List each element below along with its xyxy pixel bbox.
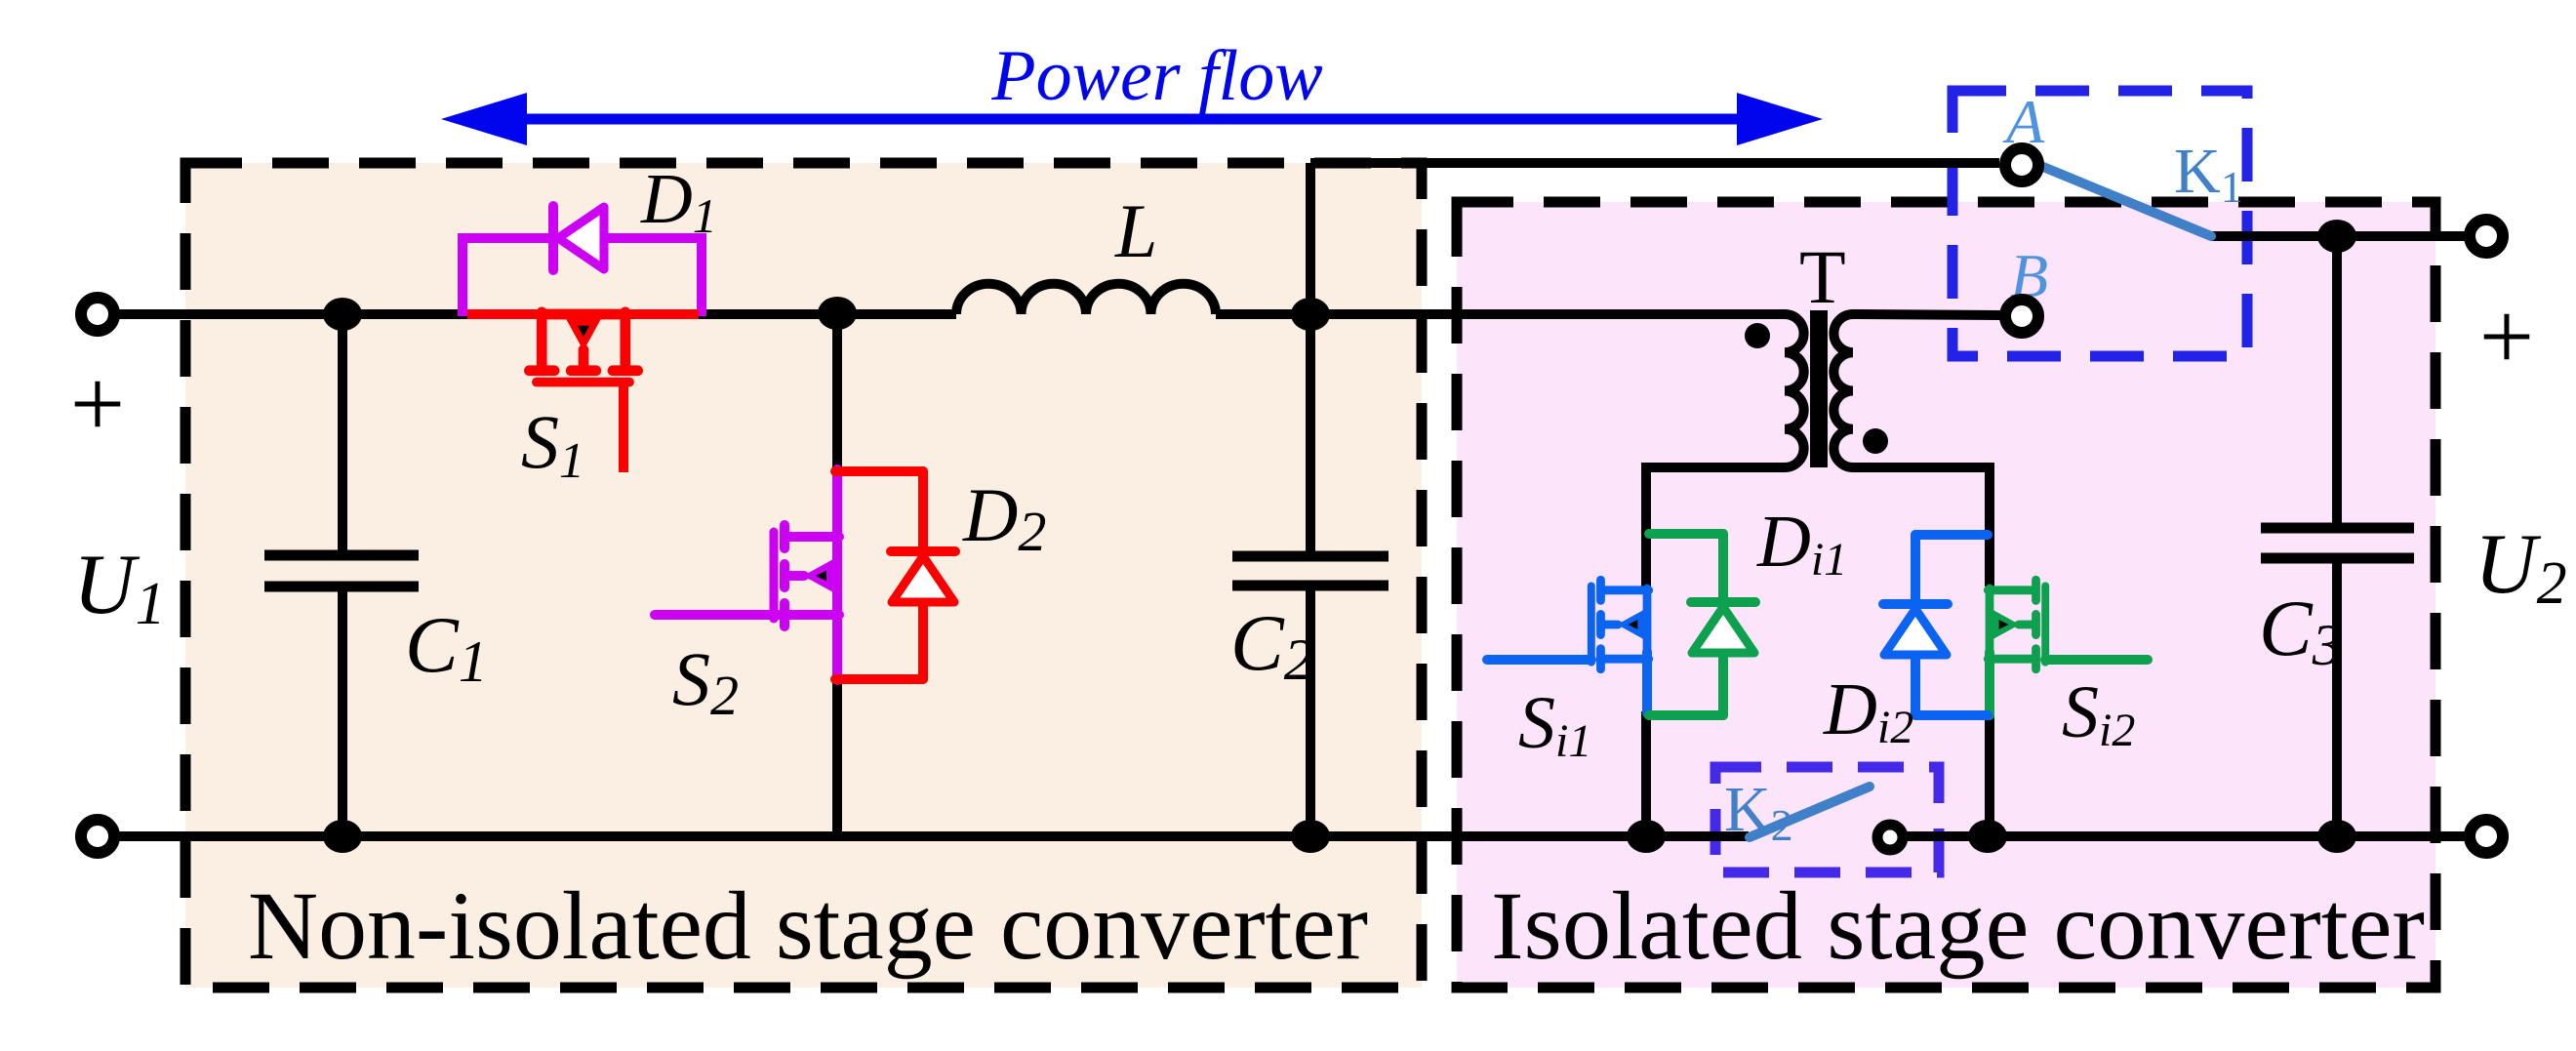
wire C2 lower vertical bbox=[1306, 586, 1315, 836]
terminal A bbox=[2005, 148, 2038, 182]
primary polarity dot bbox=[1745, 323, 1770, 348]
diode Di2 bbox=[1883, 535, 1988, 715]
svg-text:L: L bbox=[1114, 188, 1157, 273]
svg-text:Power flow: Power flow bbox=[990, 36, 1322, 116]
capacitor C3 bbox=[2261, 528, 2414, 558]
diode Di1 bbox=[1649, 534, 1755, 715]
switch K1 bbox=[2027, 160, 2211, 236]
diode D2 bbox=[835, 471, 955, 679]
transistor S2 bbox=[774, 525, 839, 627]
transistor Si2 bbox=[1988, 580, 2045, 669]
svg-text:T: T bbox=[1799, 234, 1846, 319]
wire C3 upper vertical bbox=[2332, 236, 2342, 528]
terminal bottom right bbox=[2470, 820, 2503, 853]
svg-text:Non-isolated stage converter: Non-isolated stage converter bbox=[248, 871, 1368, 980]
diode D1 bbox=[463, 206, 702, 316]
inductor L bbox=[956, 284, 1216, 314]
capacitor C2 bbox=[1232, 556, 1389, 586]
svg-text:+: + bbox=[2479, 282, 2534, 390]
terminal top right bbox=[2470, 220, 2503, 253]
S1 gate lead bbox=[619, 381, 628, 472]
capacitor C1 bbox=[264, 555, 419, 586]
wire Si1 source down bbox=[1641, 711, 1651, 836]
terminal bottom left bbox=[81, 820, 114, 853]
wire S2 upper vertical bbox=[832, 313, 842, 472]
bottom wire right of K2 bbox=[1907, 831, 2466, 841]
primary winding bbox=[1785, 314, 1804, 467]
secondary winding bbox=[1833, 314, 1853, 467]
svg-text:+: + bbox=[70, 349, 125, 458]
terminal B bbox=[2005, 300, 2038, 333]
wire K1 to right terminal bbox=[2211, 231, 2466, 241]
transformer core bbox=[1810, 310, 1828, 467]
wire to A terminal bbox=[1310, 158, 1999, 168]
wire C1 lower vertical bbox=[338, 586, 347, 836]
terminal top left bbox=[81, 298, 114, 331]
wire C2 node vertical up bbox=[1306, 163, 1315, 556]
non-isolated stage converter box bbox=[185, 163, 1422, 988]
wire top left bbox=[117, 309, 467, 319]
switch K2 bbox=[1750, 787, 1870, 837]
svg-text:Isolated stage converter: Isolated stage converter bbox=[1491, 871, 2425, 980]
wire Si2 source down bbox=[1985, 713, 1994, 836]
secondary polarity dot bbox=[1863, 428, 1888, 454]
wire top middle bbox=[699, 309, 956, 319]
K2 dashed box bbox=[1715, 767, 1939, 872]
K1 dashed box bbox=[1952, 91, 2247, 356]
wire secondary to B terminal bbox=[1853, 314, 2000, 315]
wire primary bottom to Si1 bbox=[1646, 467, 1785, 586]
wire secondary bottom to Si2 bbox=[1853, 467, 1990, 586]
wire C1 upper vertical bbox=[338, 314, 347, 555]
transistor Si1 bbox=[1591, 580, 1649, 669]
wire C3 lower vertical bbox=[2332, 558, 2342, 836]
bottom wire left bbox=[117, 831, 1749, 841]
switch K2 contact circle bbox=[1877, 825, 1903, 850]
isolated stage converter box bbox=[1457, 202, 2435, 988]
junction dots bbox=[323, 298, 362, 331]
transistor S1 bbox=[467, 309, 699, 319]
wire S2 lower vertical bbox=[832, 677, 842, 836]
wire after inductor to transformer bbox=[1216, 309, 1785, 319]
power flow arrow bbox=[441, 93, 1823, 145]
